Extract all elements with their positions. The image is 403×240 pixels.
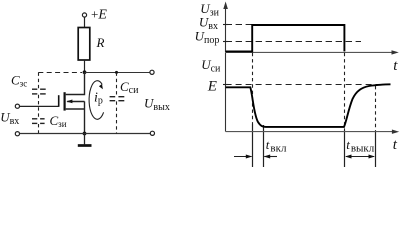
extension line t3 — [375, 132, 377, 167]
svg-text:R: R — [96, 35, 105, 50]
tick Uvx level — [223, 24, 228, 26]
node drain junction — [83, 70, 87, 74]
ground — [84, 134, 86, 145]
wire dashed C3u to bottom rail — [38, 124, 40, 134]
terminal bottom left — [15, 132, 19, 136]
terminal +E — [82, 13, 86, 17]
capacitor Csu dashed branch upper — [116, 73, 118, 96]
current loop ip — [89, 81, 104, 120]
wire gate — [20, 105, 59, 107]
terminal Uin — [15, 104, 19, 108]
graph2 y-axis — [225, 53, 227, 132]
node Csu top — [115, 71, 118, 74]
wire resistor to drain node — [84, 60, 86, 72]
capacitor Csu plates — [110, 97, 125, 101]
capacitor C3c plates — [32, 89, 46, 94]
graph1 x-axis — [226, 51, 396, 53]
dashed level Uvx — [226, 24, 252, 26]
transistor VT gate bar — [58, 95, 60, 107]
transistor source stub — [66, 108, 85, 110]
extension line t1 end — [263, 125, 265, 167]
waveform Uzi pulse — [226, 25, 345, 51]
terminal bottom right — [150, 131, 154, 135]
wire top rail to output — [85, 72, 151, 74]
dashed level E — [226, 84, 390, 86]
wire +E to resistor — [84, 17, 86, 27]
transistor drain stub — [66, 72, 85, 94]
dashed vertical t1 — [252, 53, 254, 124]
dashed level Upor — [226, 41, 361, 43]
waveform Usu — [226, 84, 391, 127]
svg-text:+E: +E — [91, 7, 107, 23]
dimension arrow t_on right — [264, 156, 277, 158]
resistor R — [78, 28, 90, 61]
wire bottom rail — [20, 133, 151, 135]
wire source to bottom rail — [84, 101, 86, 133]
graph2 x-axis — [226, 131, 397, 133]
extension line t2 — [344, 130, 346, 167]
capacitor C3u plates — [32, 119, 45, 124]
dashed vertical t3 — [375, 86, 377, 132]
terminal output top — [150, 70, 154, 74]
capacitor Csu dashed branch lower — [116, 101, 118, 133]
wire dashed C3c lower to gate wire — [38, 95, 40, 118]
graph1 y-axis — [225, 4, 227, 52]
dimension arrow t_off — [346, 156, 374, 158]
arrowhead substrate — [66, 100, 72, 104]
graph2 x-axis arrowhead — [392, 130, 399, 134]
tick Upor level — [223, 41, 228, 43]
extension line t1 — [252, 124, 254, 167]
graph1 x-axis arrowhead — [392, 50, 399, 54]
transistor VT channel bar — [63, 92, 65, 110]
wire dashed Czs to drain node — [38, 72, 82, 74]
arrowhead ip — [99, 84, 103, 89]
svg-text:E: E — [207, 79, 217, 95]
capacitor C3c dashed branch upper — [38, 73, 40, 89]
dimension arrow t_on left — [234, 156, 252, 158]
graph1 y-axis arrowhead — [223, 2, 228, 10]
dashed vertical t2 — [344, 53, 346, 130]
node source junction — [83, 132, 87, 136]
tick E level — [223, 84, 229, 86]
transistor substrate stub with arrow — [67, 101, 84, 103]
